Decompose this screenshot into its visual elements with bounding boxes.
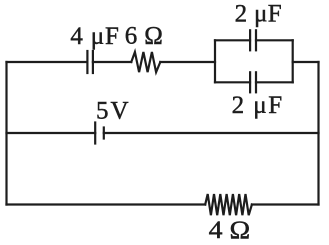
- capacitor C1 4 uF right plate: [92, 51, 94, 73]
- wire box top branch left: [215, 39, 250, 41]
- wire middle branch left: [7, 132, 96, 134]
- wire top-left to capacitor: [7, 61, 88, 63]
- resistor R1 6 ohm zigzag: [131, 52, 160, 72]
- wire right vertical: [317, 62, 319, 205]
- svg-text:6 Ω: 6 Ω: [125, 22, 163, 49]
- battery V1 5 V long plate: [94, 123, 96, 144]
- capacitor C3 2 uF bottom left plate: [249, 72, 251, 92]
- wire left vertical: [5, 62, 7, 205]
- capacitor C1 4 uF left plate: [86, 51, 88, 73]
- wire resistor R1 to parallel box: [160, 61, 215, 63]
- wire bottom branch left: [7, 203, 206, 205]
- svg-text:4 μF: 4 μF: [70, 23, 119, 50]
- wire box to top-right corner: [293, 61, 319, 63]
- capacitor C2 2 uF top left plate: [249, 30, 251, 50]
- svg-text:5 V: 5 V: [96, 98, 129, 125]
- wire box top branch right: [256, 39, 293, 41]
- wire middle branch right: [104, 132, 319, 134]
- node parallel box left edge: [214, 40, 216, 82]
- capacitor C3 2 uF bottom right plate: [255, 72, 257, 92]
- svg-text:4 Ω: 4 Ω: [209, 217, 251, 244]
- node parallel box right edge: [292, 40, 294, 82]
- wire box bottom branch right: [256, 81, 293, 83]
- wire box bottom branch left: [215, 81, 250, 83]
- svg-text:2 μF: 2 μF: [235, 1, 282, 28]
- battery V1 5 V short plate: [103, 128, 105, 139]
- wire bottom branch right: [252, 203, 319, 205]
- resistor R2 4 ohm zigzag: [205, 194, 252, 215]
- wire capacitor to resistor R1: [93, 61, 131, 63]
- svg-text:2 μF: 2 μF: [232, 92, 283, 119]
- capacitor C2 2 uF top right plate: [255, 30, 257, 50]
